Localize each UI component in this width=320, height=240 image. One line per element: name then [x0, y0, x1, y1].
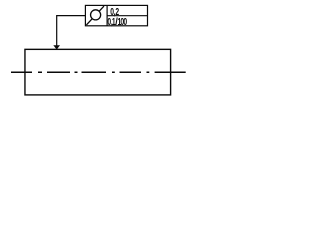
svg-text:0: 0 [123, 16, 127, 28]
